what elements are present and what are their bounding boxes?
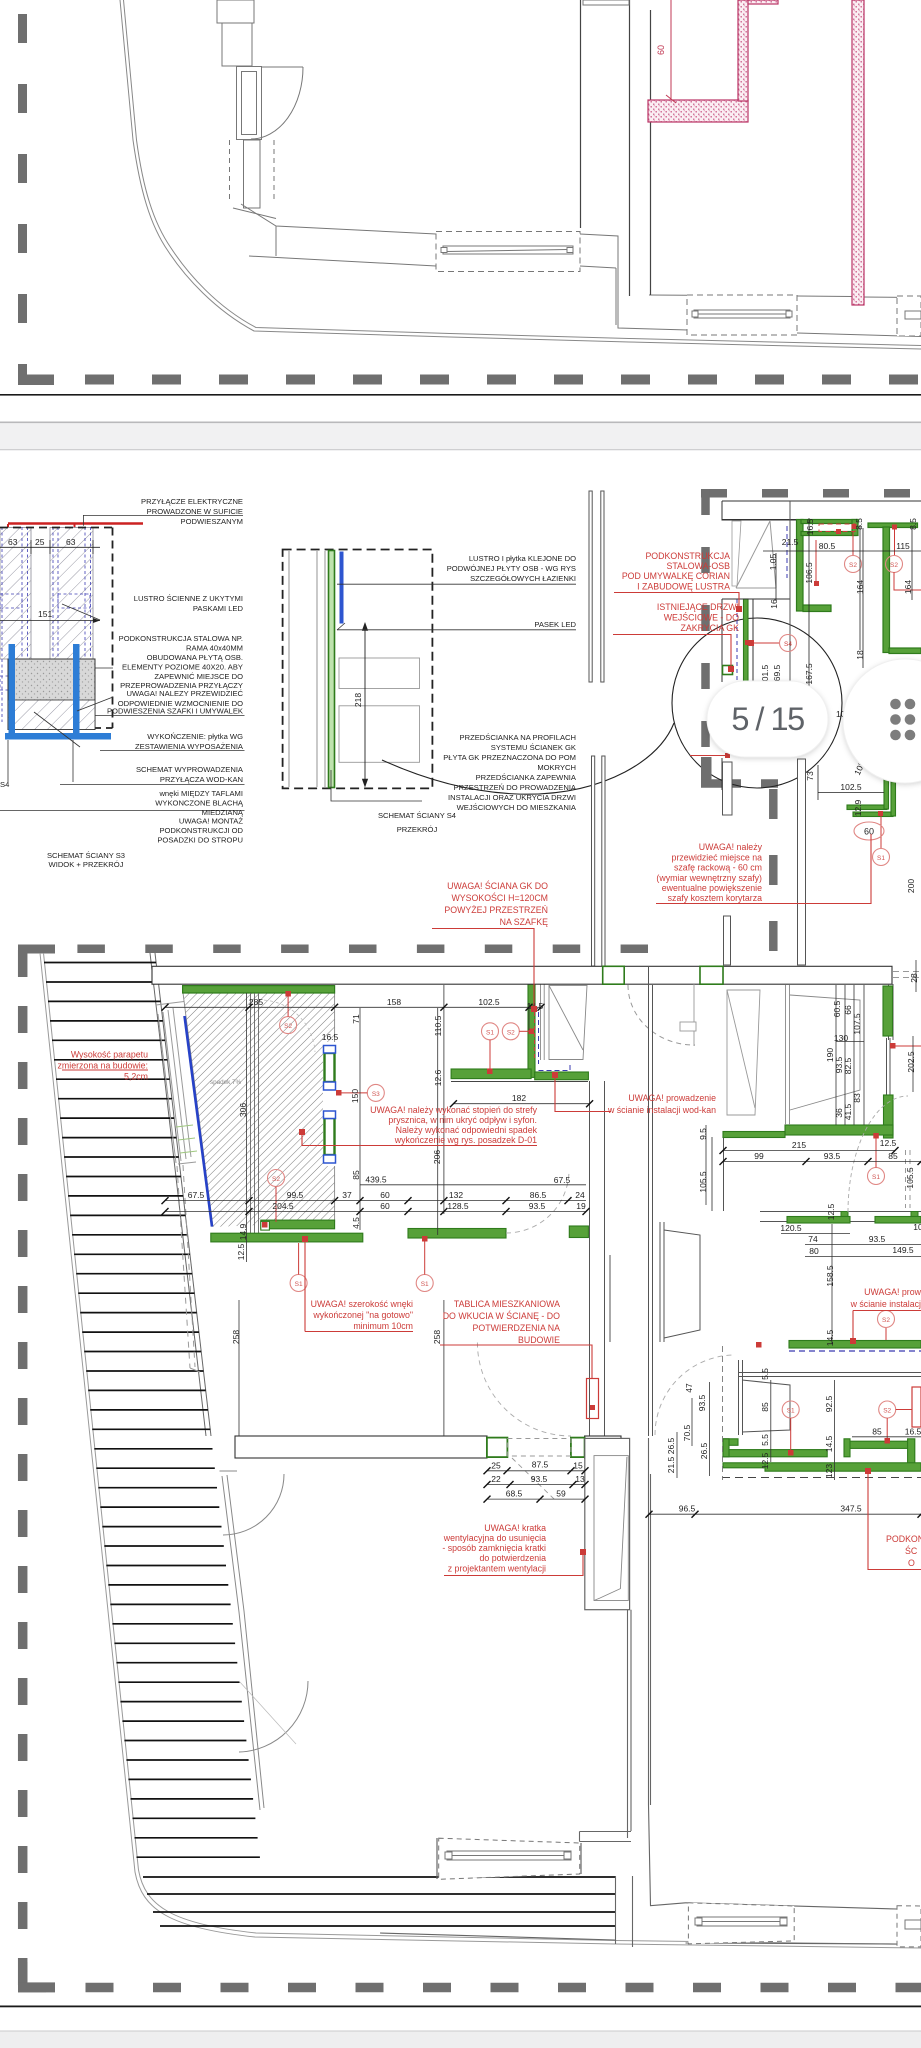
svg-text:167.5: 167.5 [804, 663, 814, 685]
svg-text:80.5: 80.5 [819, 541, 836, 551]
steps [44, 963, 615, 1927]
green wall above UWAGA prow (y 1342) [789, 1341, 921, 1349]
svg-text:SCHEMAT WYPROWADZENIA: SCHEMAT WYPROWADZENIA [136, 765, 244, 774]
shower niche wall (green/blue segments) [323, 1042, 337, 1166]
svg-text:22: 22 [491, 1474, 501, 1484]
svg-text:182: 182 [512, 1093, 526, 1103]
bathroom top dim line [165, 1006, 541, 1008]
gray gap band [0, 422, 921, 451]
blue dashed [786, 526, 788, 578]
wall piece after window, corner down [580, 234, 921, 337]
svg-text:SZCZEGÓŁOWYCH ŁAZIENKI: SZCZEGÓŁOWYCH ŁAZIENKI [470, 574, 576, 583]
dashed plot border bottom [18, 375, 921, 385]
svg-text:18: 18 [855, 650, 865, 660]
svg-text:99.5: 99.5 [287, 1190, 304, 1200]
corner dash [18, 375, 54, 386]
svg-text:14.9: 14.9 [238, 1223, 248, 1240]
svg-text:28: 28 [909, 973, 919, 983]
svg-text:1.05: 1.05 [768, 553, 778, 570]
svg-text:I ZABUDOWĘ LUSTRA: I ZABUDOWĘ LUSTRA [637, 582, 730, 592]
gray masonry block [8, 659, 95, 730]
svg-text:204.5: 204.5 [272, 1201, 294, 1211]
dims TR [763, 518, 921, 800]
left vertical border [18, 950, 28, 1992]
svg-text:306: 306 [238, 1103, 248, 1117]
dashed box [283, 550, 433, 789]
svg-text:ewentualne powiększenie: ewentualne powiększenie [662, 883, 762, 893]
outer curved boundary bottom-left (double line) [40, 953, 921, 1948]
svg-text:wykończenie wg rys. posadzek D: wykończenie wg rys. posadzek D-01 [394, 1135, 537, 1145]
svg-text:8.5: 8.5 [908, 518, 918, 530]
svg-text:LUSTRO ŚCIENNE Z UKYTYMI: LUSTRO ŚCIENNE Z UKYTYMI [134, 594, 243, 603]
svg-text:258: 258 [231, 1330, 241, 1344]
svg-text:WYKOŃCZENIE: płytka WG: WYKOŃCZENIE: płytka WG [147, 732, 243, 741]
S1 / S2 circles at bathroom top [482, 1023, 499, 1040]
svg-text:60: 60 [656, 45, 666, 55]
svg-text:86.5: 86.5 [530, 1190, 547, 1200]
svg-text:MOKRYCH: MOKRYCH [537, 763, 576, 772]
svg-text:Wysokość parapetu: Wysokość parapetu [71, 1050, 148, 1060]
red dashed existing [819, 524, 855, 532]
S2 circles bathroom [280, 1017, 297, 1034]
blue mirror bar [340, 552, 344, 624]
svg-text:S2: S2 [883, 1408, 891, 1415]
window top [217, 0, 254, 23]
svg-text:PRZEDŚCIANKA NA PROFILACH: PRZEDŚCIANKA NA PROFILACH [460, 733, 576, 742]
S1 circle [873, 849, 890, 866]
svg-text:15: 15 [573, 1461, 583, 1471]
svg-text:PODKONSTRUKCJA STALOWA NP.: PODKONSTRUKCJA STALOWA NP. [119, 634, 243, 643]
svg-text:149.5: 149.5 [892, 1245, 914, 1255]
svg-text:37: 37 [342, 1190, 352, 1200]
svg-text:5 / 15: 5 / 15 [731, 701, 804, 737]
svg-text:96.5: 96.5 [679, 1504, 696, 1514]
svg-text:41.5: 41.5 [843, 1103, 853, 1120]
svg-text:S3: S3 [372, 1091, 380, 1098]
dots menu button (half visible) [843, 659, 921, 783]
bottom-right green walls (y 1440-1472) [723, 1450, 827, 1457]
svg-text:PRZEDŚCIANKA ZAPEWNIA: PRZEDŚCIANKA ZAPEWNIA [476, 773, 577, 782]
blue U frame [5, 644, 111, 740]
door arc right wall [848, 1096, 908, 1212]
svg-text:347.5: 347.5 [840, 1504, 862, 1514]
svg-text:5,2cm: 5,2cm [124, 1072, 148, 1082]
svg-text:82.5: 82.5 [843, 1057, 853, 1074]
outer curved wall (double line) [120, 0, 921, 349]
svg-text:16.5: 16.5 [805, 518, 815, 535]
svg-text:115: 115 [896, 541, 910, 551]
svg-text:105.5: 105.5 [905, 1167, 915, 1189]
door arc from band A (room 1) [628, 985, 695, 1045]
verticals bathroom [246, 993, 248, 1262]
bathroom door frame + leaf [541, 984, 588, 1060]
svg-text:150: 150 [350, 1089, 360, 1103]
dim 151 [0, 620, 100, 622]
outline walls [722, 501, 921, 588]
second door arc lower [239, 1681, 308, 1752]
svg-text:POD UMYWALKĘ CORIAN: POD UMYWALKĘ CORIAN [622, 571, 730, 581]
interior gray verticals [581, 0, 651, 296]
svg-text:SCHEMAT ŚCIANY S4: SCHEMAT ŚCIANY S4 [378, 811, 456, 820]
bottom right room [770, 1380, 772, 1462]
svg-text:STALOWA-OSB: STALOWA-OSB [666, 561, 730, 571]
svg-text:14.5: 14.5 [825, 1329, 835, 1346]
svg-text:S2: S2 [272, 1176, 280, 1183]
svg-text:UWAGA! prow: UWAGA! prow [864, 1287, 921, 1297]
svg-text:LUSTRO I płytka KLEJONE DO: LUSTRO I płytka KLEJONE DO [469, 554, 576, 563]
svg-text:164: 164 [903, 580, 913, 594]
bathroom lower dim lines [360, 1184, 586, 1186]
svg-text:12.5: 12.5 [880, 1138, 897, 1148]
S4 circle [780, 635, 797, 652]
UWAGA kratka wentylacyjna [442, 1523, 546, 1574]
svg-text:ŚC: ŚC [905, 1545, 918, 1556]
UWAGA szafa rackowa [656, 842, 762, 903]
interior verticals right room [786, 985, 861, 1125]
svg-text:206: 206 [432, 1150, 442, 1164]
svg-text:S1: S1 [787, 1408, 795, 1415]
window in band [436, 232, 580, 272]
svg-text:PRZYŁĄCZA WOD-KAN: PRZYŁĄCZA WOD-KAN [160, 775, 243, 784]
svg-text:INSTALACJI ORAZ UKRYCIA DRZWI: INSTALACJI ORAZ UKRYCIA DRZWI [448, 793, 576, 802]
svg-text:158: 158 [387, 997, 401, 1007]
left wall column with windows [217, 0, 303, 219]
inner lines [289, 551, 325, 787]
svg-text:wentylacyjna do usunięcia: wentylacyjna do usunięcia [443, 1533, 546, 1543]
svg-text:215: 215 [792, 1140, 806, 1150]
S2 circle mid right [878, 1311, 895, 1328]
svg-text:S4: S4 [784, 641, 792, 648]
svg-text:wnęki MIĘDZY TAFLAMI: wnęki MIĘDZY TAFLAMI [158, 789, 243, 798]
door arc [251, 67, 303, 139]
door gap dashed [507, 1439, 571, 1501]
svg-text:130: 130 [834, 1033, 848, 1043]
svg-text:S1: S1 [421, 1281, 429, 1288]
room heights [238, 1300, 240, 1436]
svg-text:WYKONCZONE BLACHĄ: WYKONCZONE BLACHĄ [155, 799, 244, 808]
svg-text:S4: S4 [0, 780, 9, 789]
svg-text:szafy kosztem korytarza: szafy kosztem korytarza [668, 893, 762, 903]
dashed plot border left [18, 14, 27, 385]
svg-text:93.5: 93.5 [531, 1474, 548, 1484]
svg-text:87.5: 87.5 [532, 1460, 549, 1470]
bottom wall + windows (right part) [686, 1903, 921, 1945]
wall band A (top of rooms) [152, 966, 892, 984]
218 dimension [363, 623, 368, 786]
window with frame [237, 67, 262, 140]
svg-text:PRZESTRZEŃ DO PROWADZENIA: PRZESTRZEŃ DO PROWADZENIA [454, 783, 577, 792]
svg-text:UWAGA! szerokość wnęki: UWAGA! szerokość wnęki [311, 1299, 413, 1309]
svg-text:Należy wykonać odpowiedni spad: Należy wykonać odpowiedni spadek [396, 1125, 538, 1135]
svg-text:110.5: 110.5 [433, 1015, 443, 1036]
corridor thin double walls [589, 491, 806, 966]
svg-text:PODWIESZENIA SZAFKI I UMYWALEK: PODWIESZENIA SZAFKI I UMYWALEK [107, 707, 243, 716]
bottom wall band windows [687, 295, 921, 336]
svg-text:21.5: 21.5 [666, 1456, 676, 1473]
svg-text:107.5: 107.5 [852, 1013, 862, 1035]
svg-text:70.5: 70.5 [682, 1424, 692, 1441]
svg-text:OBUDOWANA PŁYTĄ OSB.: OBUDOWANA PŁYTĄ OSB. [147, 653, 243, 662]
blue dashed studs [0, 527, 91, 722]
svg-text:59: 59 [556, 1489, 566, 1499]
svg-text:4.5: 4.5 [351, 1217, 361, 1229]
svg-text:ZESTAWIENIA WYPOSAŻENIA: ZESTAWIENIA WYPOSAŻENIA [135, 742, 244, 751]
svg-text:63: 63 [8, 537, 18, 547]
svg-text:zmierzona na budowie:: zmierzona na budowie: [58, 1061, 148, 1071]
S1 circle right (y 1176) [868, 1168, 885, 1185]
svg-text:9.5: 9.5 [698, 1128, 708, 1140]
svg-text:60.5: 60.5 [832, 1000, 842, 1017]
svg-text:S1: S1 [295, 1281, 303, 1288]
page 1 bottom frame line [0, 394, 921, 396]
UWAGA SCIANA GK [444, 880, 548, 927]
svg-text:z projektantem wentylacji: z projektantem wentylacji [448, 1564, 546, 1574]
svg-text:RAMA 40x40MM: RAMA 40x40MM [186, 644, 243, 653]
svg-text:PODKON: PODKON [886, 1534, 921, 1544]
svg-text:WYSOKOŚCI H=120CM: WYSOKOŚCI H=120CM [451, 892, 548, 903]
S1/S2 circles above green [782, 1401, 799, 1418]
svg-text:93.5: 93.5 [869, 1234, 886, 1244]
stairs: right boundary wall [150, 953, 211, 1436]
svg-text:UWAGA! należy: UWAGA! należy [699, 842, 763, 852]
top horizontal border of main area [77, 944, 648, 953]
svg-text:85: 85 [760, 1402, 770, 1412]
svg-text:19: 19 [576, 1201, 586, 1211]
svg-text:105.5: 105.5 [698, 1171, 708, 1193]
svg-text:BUDOWIE: BUDOWIE [518, 1335, 560, 1345]
black dashed boundary right [0, 528, 113, 729]
green L wall lower right [847, 778, 896, 817]
svg-text:S1: S1 [872, 1174, 880, 1181]
svg-text:128.5: 128.5 [447, 1201, 469, 1211]
S1 circles below bathroom [290, 1275, 307, 1292]
green box at wall foot [723, 666, 733, 675]
ISTNIEJACE DRZWI [657, 602, 739, 633]
slanted window in stair wall [156, 1000, 200, 1372]
bathroom right green wall: vertical + S1 horizontal [528, 984, 535, 1077]
svg-text:123: 123 [824, 1464, 834, 1478]
svg-text:92.5: 92.5 [824, 1395, 834, 1412]
red dot + leader on right wall [890, 1043, 896, 1049]
svg-text:S2: S2 [284, 1023, 292, 1030]
svg-text:93.5: 93.5 [697, 1394, 707, 1411]
svg-text:5.5: 5.5 [760, 1434, 770, 1446]
S2 circles with leaders [845, 556, 862, 573]
svg-text:102.5: 102.5 [478, 997, 500, 1007]
svg-text:258: 258 [432, 1330, 442, 1344]
bathroom green top wall [183, 986, 335, 993]
PODKONSTRUKCJA right bottom (clipped) [886, 1534, 921, 1568]
upper-right section borders [701, 489, 921, 952]
svg-text:85: 85 [351, 1170, 361, 1180]
svg-text:S2: S2 [849, 562, 857, 569]
room lower right: green top wall [787, 1217, 850, 1224]
svg-text:71: 71 [351, 1014, 361, 1024]
door band B dims [487, 1470, 585, 1472]
dashed plot borders page2 [18, 489, 921, 1992]
svg-text:5.5: 5.5 [760, 1368, 770, 1380]
svg-text:439.5: 439.5 [365, 1175, 387, 1185]
svg-text:SCHEMAT ŚCIANY S3: SCHEMAT ŚCIANY S3 [47, 851, 125, 860]
svg-text:S2: S2 [507, 1029, 515, 1036]
svg-text:60: 60 [864, 827, 874, 837]
svg-text:UWAGA! kratka: UWAGA! kratka [484, 1523, 546, 1533]
red hatched walls [648, 0, 864, 305]
svg-text:102.5: 102.5 [840, 782, 862, 792]
svg-text:WIDOK + PRZEKRÓJ: WIDOK + PRZEKRÓJ [49, 860, 124, 869]
svg-text:85: 85 [888, 1151, 898, 1161]
svg-text:PODWIESZANYM: PODWIESZANYM [181, 517, 243, 526]
UWAGA stopien prysznica [370, 1105, 537, 1145]
small red leader on S4 wall [745, 640, 750, 645]
svg-text:25: 25 [491, 1461, 501, 1471]
svg-text:UWAGA! ŚCIANA GK DO: UWAGA! ŚCIANA GK DO [447, 880, 548, 891]
svg-text:minimum 10cm: minimum 10cm [353, 1321, 413, 1331]
svg-text:POSADZKI DO STROPU: POSADZKI DO STROPU [157, 836, 243, 845]
svg-text:PODKONSTRUKCJA: PODKONSTRUKCJA [645, 551, 730, 561]
svg-text:w ścianie instalacji wod-kan: w ścianie instalacji wod-kan [607, 1105, 716, 1115]
svg-text:01.5: 01.5 [760, 664, 770, 681]
svg-text:do potwierdzenia: do potwierdzenia [479, 1553, 546, 1563]
svg-text:UWAGA! prowadzenie: UWAGA! prowadzenie [628, 1093, 716, 1103]
wall piece [222, 23, 252, 66]
svg-text:83: 83 [852, 1093, 862, 1103]
svg-text:UWAGA! MONTAŻ: UWAGA! MONTAŻ [179, 817, 243, 826]
svg-text:158.5: 158.5 [825, 1265, 835, 1287]
svg-text:285: 285 [249, 997, 263, 1007]
vertical piece right of bottom stairs [380, 1876, 633, 1947]
svg-text:63: 63 [66, 537, 76, 547]
svg-text:99: 99 [754, 1151, 764, 1161]
green walls top [797, 520, 921, 654]
svg-text:PASKAMI LED: PASKAMI LED [193, 604, 244, 613]
svg-text:12.5: 12.5 [826, 1203, 836, 1220]
faint door arc in bathroom top [258, 1000, 315, 1052]
corner wall piece [233, 208, 276, 219]
walls of lower right room [610, 1222, 921, 1435]
hatch region [183, 993, 335, 1227]
svg-text:93.5: 93.5 [529, 1201, 546, 1211]
leader lines to labels [0, 515, 245, 810]
svg-text:WEJŚCIOWE - DO: WEJŚCIOWE - DO [664, 612, 739, 623]
corridor bottom dim [649, 1513, 921, 1515]
svg-text:218: 218 [353, 693, 363, 707]
svg-text:ZAPEWNIĆ MIEJSCE DO: ZAPEWNIĆ MIEJSCE DO [154, 672, 243, 681]
svg-text:66: 66 [843, 1005, 853, 1015]
svg-text:S1: S1 [486, 1029, 494, 1036]
UWAGA prowadzenie wod-kan (bathroom) [607, 1093, 716, 1115]
svg-text:ISTNIEJĄCE DRZWI: ISTNIEJĄCE DRZWI [657, 602, 739, 612]
interior thin walls [790, 501, 860, 682]
cabinets [339, 658, 420, 762]
svg-text:WEJŚCIOWYCH DO MIESZKANIA: WEJŚCIOWYCH DO MIESZKANIA [457, 803, 577, 812]
svg-text:106.5: 106.5 [804, 562, 814, 584]
svg-text:- sposób zamknięcia kratki: - sposób zamknięcia kratki [442, 1543, 546, 1553]
svg-text:UWAGA! NALEZY PRZEWIDZIEĆ: UWAGA! NALEZY PRZEWIDZIEĆ [127, 689, 244, 698]
svg-text:26.5: 26.5 [666, 1437, 676, 1454]
svg-text:47: 47 [684, 1383, 694, 1393]
svg-text:151: 151 [38, 609, 52, 619]
svg-text:POWYŻEJ PRZESTRZEŃ: POWYŻEJ PRZESTRZEŃ [444, 905, 548, 915]
svg-text:8.5: 8.5 [854, 518, 864, 530]
leaders [331, 584, 576, 801]
svg-text:60: 60 [380, 1201, 390, 1211]
svg-text:S1: S1 [877, 855, 885, 862]
svg-text:16.5: 16.5 [905, 1427, 921, 1437]
red corner bottom [725, 753, 730, 758]
svg-text:67.5: 67.5 [188, 1190, 205, 1200]
svg-text:TABLICA MIESZKANIOWA: TABLICA MIESZKANIOWA [454, 1299, 560, 1309]
svg-text:60: 60 [380, 1190, 390, 1200]
svg-text:PRZYŁĄCZE ELEKTRYCZNE: PRZYŁĄCZE ELEKTRYCZNE [141, 497, 243, 506]
svg-text:202.5: 202.5 [906, 1051, 916, 1073]
room right: door leaf along left wall [727, 990, 760, 1115]
svg-text:O: O [908, 1558, 915, 1568]
svg-text:PASEK LED: PASEK LED [534, 620, 576, 629]
PODKONSTRUKCJA STALOWA-OSB [622, 551, 730, 592]
svg-text:S2: S2 [890, 562, 898, 569]
svg-text:ZAKRYCIA GK: ZAKRYCIA GK [680, 623, 739, 633]
svg-text:24: 24 [575, 1190, 585, 1200]
svg-text:w ścianie instalacj: w ścianie instalacj [850, 1299, 921, 1309]
svg-text:93.5: 93.5 [824, 1151, 841, 1161]
svg-text:PŁYTA GK PRZEZNACZONA DO POM: PŁYTA GK PRZEZNACZONA DO POM [443, 753, 576, 762]
svg-text:74: 74 [808, 1234, 818, 1244]
svg-text:PRZEKRÓJ: PRZEKRÓJ [397, 825, 438, 834]
left room door arc + frame [220, 1471, 285, 1810]
svg-text:69.5: 69.5 [772, 664, 782, 681]
svg-text:spadek 7%: spadek 7% [210, 1079, 242, 1086]
svg-text:wykończonej "na gotowo": wykończonej "na gotowo" [312, 1310, 413, 1320]
svg-text:67.5: 67.5 [554, 1175, 571, 1185]
top wall band going right [241, 204, 921, 337]
dashed continuation right of band A [893, 972, 921, 978]
svg-text:PODWÓJNEJ PŁYTY OSB - WG RYS: PODWÓJNEJ PŁYTY OSB - WG RYS [447, 564, 576, 573]
svg-text:164: 164 [855, 580, 865, 594]
svg-text:26.5: 26.5 [699, 1442, 709, 1459]
svg-text:120.5: 120.5 [780, 1223, 802, 1233]
svg-text:ELEMENTY POZIOME 40X20. ABY: ELEMENTY POZIOME 40X20. ABY [122, 663, 243, 672]
svg-text:68.5: 68.5 [506, 1489, 523, 1499]
big dashed arc (door) middle [655, 1355, 735, 1435]
lower right room [781, 1233, 850, 1235]
svg-text:16: 16 [769, 599, 779, 609]
interior divider lines [251, 993, 259, 1233]
bottom border [18, 1983, 921, 1993]
page pill 5/15 [707, 681, 828, 757]
svg-text:21.5: 21.5 [782, 537, 799, 547]
small door hardware [680, 1022, 696, 1031]
right room verticals [835, 985, 837, 1125]
svg-text:10: 10 [913, 1222, 921, 1232]
room right: right wall + window + greens [887, 984, 894, 1095]
svg-text:(wymiar wewnętrzny szafy): (wymiar wewnętrzny szafy) [656, 873, 762, 883]
corridor vertical walls below TR [590, 966, 653, 1436]
blue dashed in bathroom corner [539, 1012, 571, 1071]
svg-text:prysznica, w nim ukryć odpływ: prysznica, w nim ukryć odpływ i syfon. [388, 1115, 537, 1125]
svg-text:PODKONSTRUKCJI OD: PODKONSTRUKCJI OD [159, 826, 243, 835]
svg-text:85: 85 [872, 1427, 882, 1437]
svg-text:12.5: 12.5 [760, 1452, 770, 1469]
UWAGA szerokosc wneki [311, 1299, 413, 1331]
svg-text:12.5: 12.5 [236, 1243, 246, 1260]
60 oval dim [854, 822, 884, 840]
corridor below shaft [580, 1438, 686, 1906]
wall band B (bottom rooms, y 1436-1458) [235, 1436, 621, 1458]
UWAGA prowadzenie right [850, 1287, 921, 1309]
svg-text:200: 200 [906, 879, 916, 893]
shaft [585, 1438, 630, 1609]
